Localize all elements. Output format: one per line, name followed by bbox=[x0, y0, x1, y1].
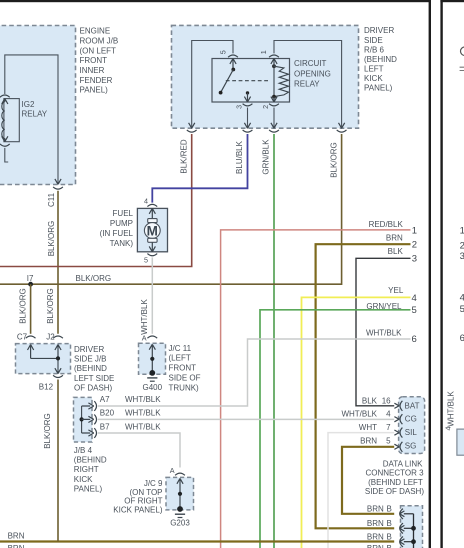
label DRIVER SIDE R/B 6 (BEHIND LEFT KICK PANEL) bbox=[364, 26, 397, 92]
J2 inner arrow bbox=[55, 345, 61, 359]
svg-text:BLK: BLK bbox=[388, 247, 404, 256]
svg-text:B: B bbox=[387, 544, 392, 548]
label J/C 11 (LEFT FRONT SIDE OF TRUNK) bbox=[169, 344, 201, 393]
svg-text:B12: B12 bbox=[39, 383, 54, 392]
svg-text:RELAY: RELAY bbox=[22, 109, 48, 118]
page 2 small marks bbox=[460, 67, 464, 70]
inner junction dot bbox=[56, 356, 60, 360]
svg-text:2: 2 bbox=[460, 241, 464, 252]
svg-text:IG2: IG2 bbox=[22, 100, 35, 109]
wire from pin 1 up over to right exit bbox=[274, 41, 342, 129]
SIL pin arrow and cup bbox=[394, 430, 399, 435]
svg-text:4: 4 bbox=[144, 196, 148, 205]
svg-text:ENGINE: ENGINE bbox=[80, 27, 111, 36]
A7 branch arrow bbox=[82, 403, 94, 409]
wire WHT from DLC3 SIL down off page bbox=[328, 433, 394, 548]
CG pin arrow and cup bbox=[394, 417, 399, 422]
svg-text:BRN: BRN bbox=[8, 532, 25, 541]
A7 cup bbox=[94, 401, 96, 411]
svg-text:TRUNK): TRUNK) bbox=[169, 383, 200, 392]
svg-text:KICK: KICK bbox=[364, 74, 383, 83]
ground bus line bbox=[413, 514, 415, 548]
page 2 left border bbox=[440, 0, 442, 548]
relay pin 2 stem and arrow bbox=[271, 97, 277, 102]
pump pin 5 arrow bbox=[149, 242, 155, 252]
svg-text:3: 3 bbox=[460, 251, 464, 262]
svg-text:BLK/ORG: BLK/ORG bbox=[46, 288, 55, 324]
B12 cup bbox=[53, 375, 63, 377]
svg-text:ROOM J/B: ROOM J/B bbox=[80, 36, 119, 45]
svg-text:6: 6 bbox=[412, 334, 417, 345]
svg-text:BRN: BRN bbox=[8, 544, 25, 548]
svg-text:FRONT: FRONT bbox=[80, 56, 108, 65]
svg-text:FENDER: FENDER bbox=[80, 76, 113, 85]
J/C9 inner arrow and wire bbox=[177, 478, 183, 509]
wire loop from IG2 relay top, right to C11 bbox=[5, 55, 58, 184]
inner junction dot bbox=[80, 417, 84, 421]
svg-text:WHT/BLK: WHT/BLK bbox=[446, 391, 455, 427]
wire WHT/BLK from J/B4 B7 down to J/C9 bbox=[98, 433, 180, 468]
svg-text:1: 1 bbox=[259, 50, 268, 54]
svg-text:C11: C11 bbox=[47, 192, 56, 207]
svg-text:G400: G400 bbox=[143, 383, 163, 392]
svg-text:SIDE OF DASH): SIDE OF DASH) bbox=[365, 487, 424, 496]
label DRIVER SIDE J/B (BEHIND LEFT SIDE OF DASH) bbox=[74, 345, 114, 393]
svg-text:OF DASH): OF DASH) bbox=[74, 384, 113, 393]
svg-text:WHT/BLK: WHT/BLK bbox=[125, 422, 161, 431]
svg-text:RIGHT: RIGHT bbox=[74, 465, 99, 474]
svg-text:OPENING: OPENING bbox=[294, 69, 331, 78]
svg-text:KICK: KICK bbox=[74, 475, 93, 484]
page 2 top border bbox=[440, 0, 464, 2]
svg-text:J/C 11: J/C 11 bbox=[169, 344, 192, 353]
svg-text:I7: I7 bbox=[27, 274, 34, 283]
IG2 coil bottom arrow bbox=[2, 136, 8, 141]
svg-text:TANK): TANK) bbox=[110, 239, 134, 248]
wire BLK/ORG from B12 down to BRN ground wire bbox=[57, 380, 59, 542]
svg-text:BLK/RED: BLK/RED bbox=[179, 139, 188, 173]
connector C11 exit arrow bbox=[55, 179, 61, 184]
svg-text:PUMP: PUMP bbox=[110, 219, 133, 228]
relay contact arm bbox=[221, 70, 234, 93]
svg-text:5: 5 bbox=[460, 304, 464, 315]
wire BLK/RED from relay exit down then left to page edge bbox=[0, 134, 192, 267]
svg-text:5: 5 bbox=[412, 305, 417, 316]
label CIRCUIT OPENING RELAY bbox=[294, 59, 331, 88]
svg-text:3: 3 bbox=[234, 105, 243, 109]
svg-text:(IN FUEL: (IN FUEL bbox=[100, 229, 134, 238]
label J/B 4 (BEHIND RIGHT KICK PANEL) bbox=[74, 446, 107, 494]
fuel pump box bbox=[137, 208, 167, 251]
svg-text:BRN: BRN bbox=[367, 544, 384, 548]
svg-text:A: A bbox=[142, 334, 147, 343]
pump pin 4 arrow bbox=[149, 208, 155, 218]
svg-text:R/B 6: R/B 6 bbox=[364, 45, 385, 54]
relay U1: CIRCUIT OPENING RELAY box bbox=[212, 59, 290, 103]
bus junction dot row3 bbox=[411, 539, 416, 544]
junction block J/B 4 box bbox=[74, 397, 93, 442]
svg-text:M: M bbox=[147, 223, 158, 238]
motor commutator top bbox=[148, 219, 157, 223]
relay block: DRIVER SIDE R/B 6 bbox=[172, 25, 359, 128]
relay IG2 box bbox=[4, 99, 19, 142]
svg-text:DRIVER: DRIVER bbox=[364, 26, 394, 35]
exit arrow BLK/RED bbox=[189, 123, 195, 128]
relay pin 3 dot bbox=[246, 91, 249, 94]
relay pin 5 stem and arrow bbox=[230, 59, 236, 70]
svg-text:B: B bbox=[387, 519, 392, 528]
svg-text:GRN/BLK: GRN/BLK bbox=[262, 139, 271, 175]
svg-text:16: 16 bbox=[382, 396, 391, 405]
wire WHT/BLK from J/B4 A7 up and right to pin 6 bbox=[98, 339, 411, 406]
relay coil zigzag bbox=[274, 66, 289, 96]
svg-text:B: B bbox=[387, 504, 392, 513]
relay pin 2 cup bbox=[269, 104, 279, 106]
svg-text:LEFT: LEFT bbox=[364, 64, 384, 73]
relay coil bottom dot (pin 2) bbox=[272, 95, 276, 99]
svg-text:4: 4 bbox=[460, 293, 464, 304]
C7 inner arrow bbox=[28, 345, 34, 359]
junction block box (cut off at bottom) bbox=[401, 506, 423, 548]
page 1 right border bbox=[429, 0, 431, 548]
svg-text:PANEL): PANEL) bbox=[74, 485, 103, 494]
svg-text:BLK/ORG: BLK/ORG bbox=[18, 288, 27, 324]
junction block: ENGINE ROOM J/B bbox=[0, 26, 76, 185]
IG2 relay coil bbox=[2, 102, 5, 139]
svg-text:YEL: YEL bbox=[388, 286, 404, 295]
svg-text:BRN: BRN bbox=[367, 519, 384, 528]
svg-text:CONNECTOR 3: CONNECTOR 3 bbox=[366, 469, 425, 478]
relay pin 1 cup bbox=[269, 55, 279, 57]
relay contact fixed dot bbox=[231, 68, 235, 72]
wire RED/BLK from pin 1 row down off page bbox=[221, 230, 411, 548]
relay pin 5 cup bbox=[228, 55, 238, 57]
pin A cup bbox=[175, 473, 185, 475]
IG2 bottom connector cup bbox=[0, 144, 10, 146]
svg-text:(LEFT: (LEFT bbox=[169, 354, 191, 363]
SG pin arrow and cup bbox=[394, 444, 399, 449]
svg-text:PANEL): PANEL) bbox=[364, 84, 393, 93]
svg-text:J/B 4: J/B 4 bbox=[74, 446, 93, 455]
svg-text:BRN: BRN bbox=[367, 504, 384, 513]
wire BLK/ORG from C11 down to J2 bbox=[57, 191, 59, 334]
svg-text:6: 6 bbox=[460, 333, 464, 344]
svg-text:SIDE J/B: SIDE J/B bbox=[74, 355, 106, 364]
svg-text:5: 5 bbox=[386, 437, 391, 446]
svg-text:(BEHIND: (BEHIND bbox=[74, 364, 107, 373]
row 1 BRN B: cup, arrow, link bbox=[400, 509, 403, 519]
wire BLU/BLK from relay to fuel pump pin 4 bbox=[152, 134, 247, 203]
J/C11 junction dot bbox=[150, 357, 154, 361]
svg-text:DRIVER: DRIVER bbox=[74, 345, 104, 354]
BAT pin arrow and cup bbox=[394, 403, 399, 408]
svg-text:2: 2 bbox=[412, 240, 417, 251]
svg-text:4: 4 bbox=[412, 293, 417, 304]
B12 exit arrow bbox=[55, 368, 61, 373]
wire BLK/ORG from relay down then left as I7 bus bbox=[0, 134, 342, 284]
svg-text:A7: A7 bbox=[100, 395, 110, 404]
label J/C 9 (ON TOP OF RIGHT KICK PANEL) bbox=[113, 479, 163, 514]
svg-text:1: 1 bbox=[412, 225, 417, 236]
svg-text:G203: G203 bbox=[170, 518, 190, 527]
svg-text:WHT/BLK: WHT/BLK bbox=[366, 328, 402, 337]
svg-text:(BEHIND LEFT: (BEHIND LEFT bbox=[368, 478, 423, 487]
svg-text:PANEL): PANEL) bbox=[80, 86, 109, 95]
svg-text:3: 3 bbox=[412, 254, 417, 265]
IG2 bottom wire stub bbox=[5, 148, 8, 162]
wire WHT/BLK from J/B4 B20 to DLC3 CG bbox=[98, 418, 394, 420]
svg-text:4: 4 bbox=[443, 427, 452, 431]
ground G203 symbol bbox=[175, 513, 185, 515]
relay coil C.O.R. top dot bbox=[272, 64, 276, 68]
exit arrow BLU/BLK bbox=[244, 123, 250, 128]
svg-text:WHT: WHT bbox=[359, 423, 377, 432]
wire BRN from DLC3 SG down to ground block row 1 bbox=[342, 447, 394, 514]
wire BLK from pin 3 row down to DLC3 BAT bbox=[356, 258, 411, 406]
wire BRN from pin 2 row down to ground block row 2 bbox=[316, 244, 411, 528]
wire pin2 down to exit bbox=[273, 108, 275, 129]
page 2 connector box (cut) bbox=[457, 429, 464, 455]
svg-text:BLK/ORG: BLK/ORG bbox=[76, 274, 112, 283]
C7 cup bbox=[26, 336, 36, 338]
svg-text:WHT/BLK: WHT/BLK bbox=[140, 299, 149, 335]
page 2 connector arc (cut) bbox=[461, 47, 464, 56]
svg-text:RELAY: RELAY bbox=[294, 79, 320, 88]
wire GRN/BLK from relay down off page bbox=[273, 134, 275, 548]
connector C11 cup bbox=[53, 187, 63, 189]
wire WHT/BLK from pump pin 5 down to J/C11 bbox=[151, 257, 153, 333]
ground G203 dot bbox=[177, 506, 183, 512]
svg-text:OF RIGHT: OF RIGHT bbox=[124, 497, 162, 506]
junction block DRIVER SIDE J/B box bbox=[16, 344, 71, 374]
IG2 top connector cup bbox=[0, 95, 10, 97]
relay mechanical link (dashed) bbox=[226, 80, 269, 82]
pin 5 cup bbox=[147, 254, 157, 256]
pin 4 cup bbox=[147, 204, 157, 206]
exit cup GRN/BLK bbox=[269, 130, 279, 132]
svg-text:CIRCUIT: CIRCUIT bbox=[294, 59, 327, 68]
svg-text:(ON LEFT: (ON LEFT bbox=[80, 46, 117, 55]
label DATA LINK CONNECTOR 3 (BEHIND LEFT SIDE OF DASH) bbox=[365, 460, 424, 496]
svg-text:BLU/BLK: BLU/BLK bbox=[235, 140, 244, 174]
row 2 BRN B: cup, arrow, link bbox=[400, 523, 403, 533]
svg-text:CG: CG bbox=[405, 415, 417, 424]
wire BLK/ORG branch to C7 bbox=[30, 284, 32, 334]
svg-text:BRN: BRN bbox=[386, 233, 403, 242]
svg-text:RED/BLK: RED/BLK bbox=[369, 220, 404, 229]
svg-text:GRN/YEL: GRN/YEL bbox=[366, 302, 402, 311]
svg-text:SIL: SIL bbox=[405, 428, 418, 437]
J2 cup bbox=[53, 336, 63, 338]
exit arrow BLK/ORG bbox=[339, 123, 345, 128]
wire YEL from pin 4 row down off page bbox=[302, 297, 411, 548]
svg-text:SIDE: SIDE bbox=[364, 36, 383, 45]
junction connector J/C 9 box bbox=[166, 477, 194, 510]
svg-text:BLK: BLK bbox=[362, 396, 378, 405]
inner connecting wire bbox=[31, 358, 58, 373]
B20 branch arrow bbox=[82, 416, 94, 422]
ground G400 symbol bbox=[147, 377, 157, 379]
B7 cup bbox=[94, 428, 96, 438]
svg-text:FRONT: FRONT bbox=[169, 364, 197, 373]
svg-text:5: 5 bbox=[219, 50, 228, 54]
inner bus bbox=[81, 406, 83, 433]
wire from pin 5 up over to left exit bbox=[192, 41, 233, 129]
svg-text:BRN: BRN bbox=[367, 532, 384, 541]
motor M1 circle bbox=[144, 223, 160, 239]
svg-text:WHT/BLK: WHT/BLK bbox=[125, 409, 161, 418]
svg-text:A: A bbox=[170, 466, 175, 475]
svg-text:FUEL: FUEL bbox=[113, 209, 134, 218]
svg-text:4: 4 bbox=[386, 410, 391, 419]
svg-text:BAT: BAT bbox=[405, 401, 420, 410]
svg-text:BLK/ORG: BLK/ORG bbox=[43, 413, 52, 449]
svg-text:DATA LINK: DATA LINK bbox=[383, 460, 423, 469]
svg-text:(BEHIND: (BEHIND bbox=[74, 456, 107, 465]
relay pin 3 cup bbox=[243, 104, 253, 106]
relay coil vertical line bbox=[273, 66, 275, 96]
svg-text:7: 7 bbox=[386, 423, 391, 432]
svg-text:LEFT SIDE: LEFT SIDE bbox=[74, 374, 114, 383]
svg-text:1: 1 bbox=[460, 226, 464, 237]
ground G400 dot bbox=[149, 370, 155, 376]
B7 branch arrow bbox=[82, 430, 94, 436]
svg-text:B20: B20 bbox=[100, 409, 115, 418]
exit cup BLK/RED bbox=[187, 130, 197, 132]
svg-text:B: B bbox=[387, 532, 392, 541]
svg-text:SG: SG bbox=[405, 441, 417, 450]
svg-text:BLK/ORG: BLK/ORG bbox=[47, 221, 56, 257]
label FUEL PUMP (IN FUEL TANK) bbox=[100, 209, 134, 248]
svg-text:J/C 9: J/C 9 bbox=[144, 479, 163, 488]
motor commutator bottom bbox=[148, 238, 157, 242]
svg-text:BLK/ORG: BLK/ORG bbox=[330, 142, 339, 178]
row 3 BRN B: cup, arrow, link bbox=[400, 537, 403, 547]
svg-text:(BEHIND: (BEHIND bbox=[364, 55, 397, 64]
svg-text:B7: B7 bbox=[100, 422, 110, 431]
relay pin 3 stem and arrow bbox=[244, 93, 250, 102]
junction connector J/C 11 box bbox=[139, 343, 166, 374]
exit cup BLK/ORG bbox=[337, 130, 347, 132]
wire GRN/YEL from pin 5 row down off page bbox=[260, 310, 411, 548]
wire BRN row 3 from page edge to ground block bbox=[0, 540, 394, 542]
bus junction dot row2 bbox=[411, 526, 416, 531]
exit cup BLU/BLK bbox=[243, 130, 253, 132]
svg-text:WHT/BLK: WHT/BLK bbox=[341, 410, 377, 419]
pin A cup bbox=[147, 336, 157, 338]
connector DLC3 box bbox=[399, 397, 425, 454]
IG2 coil top arrow bbox=[2, 99, 8, 104]
svg-text:KICK PANEL): KICK PANEL) bbox=[113, 505, 163, 514]
J/C11 inner arrow and wire bbox=[149, 344, 155, 373]
svg-text:SIDE OF: SIDE OF bbox=[169, 374, 201, 383]
wire pin3 down to exit bbox=[247, 108, 249, 129]
relay contact arm dot bbox=[219, 91, 223, 95]
svg-text:BRN: BRN bbox=[360, 437, 377, 446]
exit arrow GRN/BLK bbox=[271, 123, 277, 128]
svg-text:2: 2 bbox=[261, 105, 270, 109]
svg-text:5: 5 bbox=[144, 255, 148, 264]
page 1 top border bbox=[0, 0, 429, 2]
svg-text:C7: C7 bbox=[17, 333, 28, 342]
svg-text:INNER: INNER bbox=[80, 66, 105, 75]
J/C9 junction dot bbox=[178, 492, 182, 496]
svg-text:(ON TOP: (ON TOP bbox=[129, 488, 162, 497]
svg-text:WHT/BLK: WHT/BLK bbox=[125, 395, 161, 404]
relay pin 1 stem and arrow bbox=[271, 59, 277, 67]
label ENGINE ROOM J/B (ON LEFT FRONT INNER FENDER PANEL) bbox=[80, 27, 119, 95]
B20 cup bbox=[94, 415, 96, 425]
